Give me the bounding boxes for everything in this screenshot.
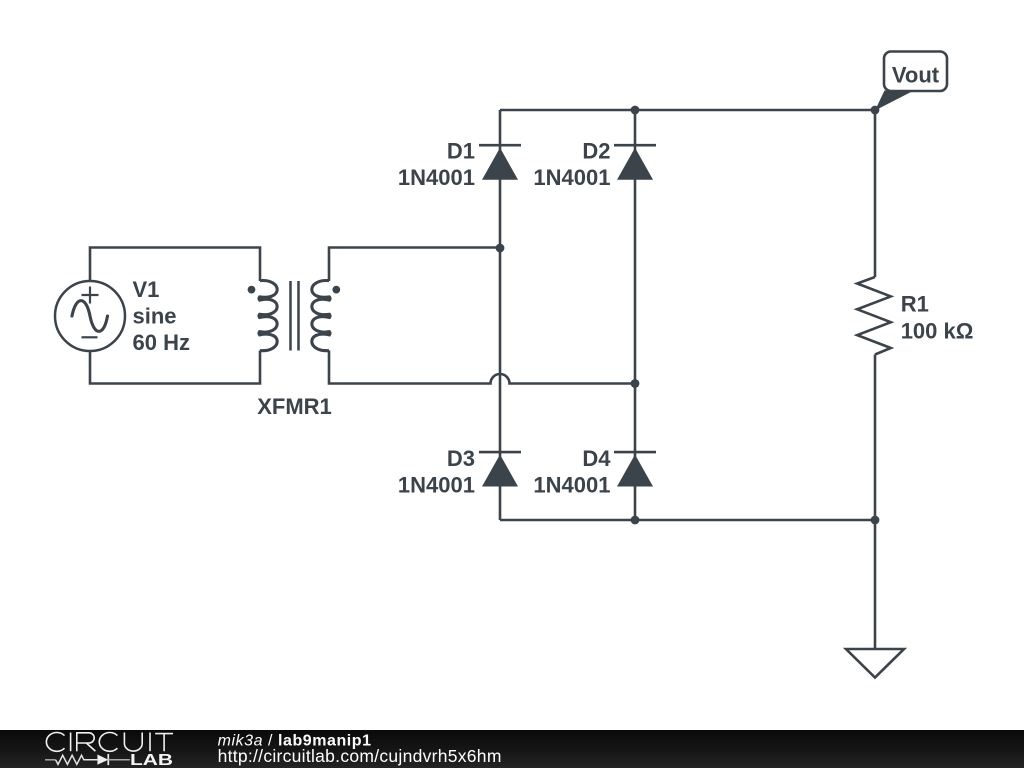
junction dot top rail at D2 [631,106,640,115]
svg-text:D2: D2 [582,139,610,164]
Vout flag box [884,52,947,92]
svg-text:1N4001: 1N4001 [398,472,475,497]
diode D4 cathode bar [614,451,656,454]
svg-text:R1: R1 [901,292,929,317]
diode D1 cathode bar [479,144,521,147]
wire R1 to ground [874,355,877,650]
junction dot secondary top tap [496,244,505,253]
resistor R1 body [857,277,891,355]
junction dot bottom rail at R1 [871,516,880,525]
wire D2-D4 branch vertical [634,110,637,520]
wire V1 bottom to primary [90,351,260,384]
wire D1-D3 branch vertical [499,110,502,520]
Vout flag pointer wedge [875,91,912,111]
svg-text:100 kΩ: 100 kΩ [901,319,974,344]
svg-text:XFMR1: XFMR1 [257,394,332,419]
transformer XFMR1 secondary coil [312,280,330,350]
svg-text:1N4001: 1N4001 [533,165,610,190]
diode D4 triangle [617,455,653,487]
svg-text:LAB: LAB [130,750,173,768]
ground symbol [846,649,904,678]
wire bottom rail [500,519,875,522]
junction dot Vout node [871,106,880,115]
footer bar [0,730,1024,768]
wire secondary top tap [329,248,500,282]
V1 plus sign [82,287,99,304]
diode D2 cathode bar [614,144,656,147]
svg-text:60 Hz: 60 Hz [133,330,190,355]
svg-text:D3: D3 [447,446,475,471]
transformer primary phase dot [248,286,256,294]
transformer XFMR1 core [291,281,299,351]
svg-text:http://circuitlab.com/cujndvrh: http://circuitlab.com/cujndvrh5x6hm [218,746,502,766]
wire Vout node to R1 [874,110,877,277]
diode D3 cathode bar [479,451,521,454]
V1 sine symbol [72,301,108,332]
diode D2 triangle [617,148,653,180]
wire V1 top to primary [90,248,260,282]
transformer secondary phase dot [332,286,340,294]
svg-text:D1: D1 [447,139,475,164]
junction dot secondary bottom tap [631,379,640,388]
svg-text:1N4001: 1N4001 [398,165,475,190]
svg-text:1N4001: 1N4001 [533,472,610,497]
svg-text:D4: D4 [582,446,611,471]
footer logo CIRCUIT letters [46,733,173,752]
diode D1 triangle [482,148,518,180]
footer logo diode triangle [97,755,108,765]
V1 minus sign [82,336,98,338]
voltage source V1 circle [55,281,125,351]
svg-text:V1: V1 [133,277,160,302]
svg-text:Vout: Vout [892,63,940,88]
diode D3 triangle [482,455,518,487]
transformer XFMR1 primary coil [259,280,277,350]
footer logo resistor-diode strip [45,754,130,765]
wire secondary bottom tap with hop [329,351,635,384]
wire top rail [500,109,875,112]
junction dot bottom rail at D4 [631,516,640,525]
svg-text:sine: sine [133,304,177,329]
